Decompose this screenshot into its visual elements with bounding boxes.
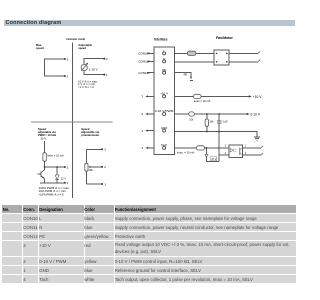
svg-text:0-10 V: 0-10 V <box>250 113 261 117</box>
svg-text:2: 2 <box>67 74 69 78</box>
svg-text:4: 4 <box>225 152 227 155</box>
svg-text:2: 2 <box>245 152 247 155</box>
svg-text:CON11: CON11 <box>139 60 149 64</box>
svg-text:2: 2 <box>104 165 106 169</box>
svg-text:speed: speed <box>78 46 86 50</box>
svg-text:12 V: 12 V <box>61 177 67 181</box>
svg-text:1: 1 <box>245 144 247 147</box>
svg-text:10k: 10k <box>210 120 215 123</box>
svg-text:1: 1 <box>106 73 108 77</box>
svg-text:1-10 V: 1-10 V <box>89 68 98 72</box>
svg-text:Tach: Tach <box>161 143 167 147</box>
svg-text:CON10: CON10 <box>138 52 148 56</box>
svg-text:GND: GND <box>161 126 167 130</box>
svg-text:3: 3 <box>67 57 69 61</box>
svg-text:1 µF: 1 µF <box>222 120 228 124</box>
svg-text:<1 V ≙ n = 0: <1 V ≙ n = 0 <box>78 86 94 89</box>
svg-text:1: 1 <box>67 181 69 185</box>
svg-text:2: 2 <box>67 165 69 169</box>
svg-text:3: 3 <box>104 148 106 152</box>
svg-text:4: 4 <box>142 146 144 150</box>
svg-text:+10 V: +10 V <box>160 92 168 96</box>
svg-text:3: 3 <box>225 144 227 147</box>
svg-text:PE: PE <box>162 68 166 72</box>
svg-text:Interface: Interface <box>154 38 168 42</box>
svg-text:Fan/Motor: Fan/Motor <box>216 36 234 40</box>
svg-text:<10% PWM ≙ n = 0: <10% PWM ≙ n = 0 <box>39 193 65 196</box>
svg-text:1: 1 <box>142 129 144 133</box>
svg-text:CON12: CON12 <box>138 71 148 75</box>
svg-text:Imax. = 10 mA: Imax. = 10 mA <box>177 151 195 155</box>
svg-text:0-10 V/PWM: 0-10 V/PWM <box>155 109 174 113</box>
svg-text:speed: speed <box>36 46 44 50</box>
svg-text:Imax = 10 mA: Imax = 10 mA <box>47 154 64 158</box>
svg-text:47 V: 47 V <box>211 158 216 161</box>
svg-text:10k: 10k <box>189 118 194 121</box>
svg-text:10 V: 10 V <box>40 137 46 141</box>
svg-text:2: 2 <box>106 57 108 61</box>
svg-text:potentiometer: potentiometer <box>81 133 99 137</box>
svg-text:N: N <box>163 57 165 61</box>
svg-text:PE: PE <box>184 73 188 77</box>
svg-text:3: 3 <box>142 95 144 99</box>
svg-text:Customer circuit: Customer circuit <box>66 37 85 41</box>
svg-text:Imax = 10 mA: Imax = 10 mA <box>194 99 211 103</box>
svg-text:10k: 10k <box>89 168 94 172</box>
svg-text:1: 1 <box>104 182 106 186</box>
svg-text:2: 2 <box>142 112 144 116</box>
svg-text:+10 V: +10 V <box>253 95 263 99</box>
